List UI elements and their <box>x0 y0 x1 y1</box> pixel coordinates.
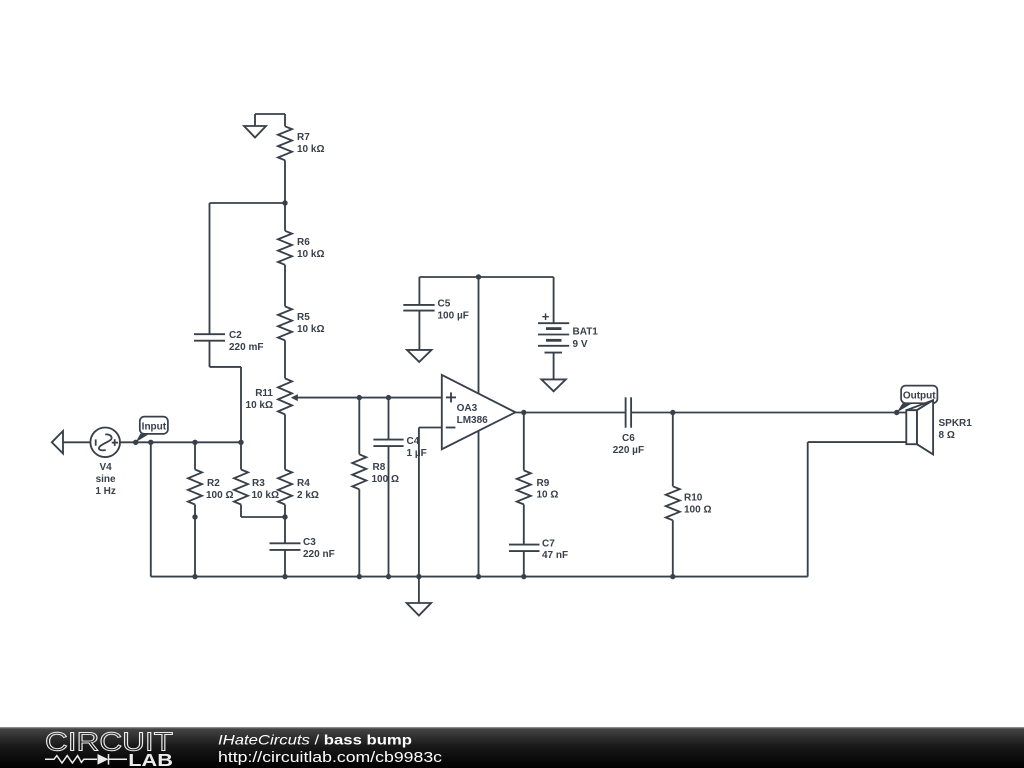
svg-text:LAB: LAB <box>128 750 173 768</box>
svg-text:10 Ω: 10 Ω <box>537 490 559 501</box>
svg-text:10 kΩ: 10 kΩ <box>252 490 279 501</box>
node: R2 bottom terminal <box>192 514 197 519</box>
capacitor C3 <box>270 517 301 577</box>
svg-text:OA3: OA3 <box>457 403 478 414</box>
logo squiggle (resistor + diode) <box>45 754 127 765</box>
node: input flag junction <box>133 440 138 445</box>
svg-text:Output: Output <box>903 390 936 401</box>
label C7 47 nF <box>542 539 568 562</box>
node: R2 top junction <box>192 440 197 445</box>
label R7 10 k&#937; <box>297 132 324 155</box>
svg-text:220 mF: 220 mF <box>229 342 263 353</box>
ground (below BAT1) <box>541 379 565 391</box>
svg-text:BAT1: BAT1 <box>573 327 599 338</box>
wire op-amp V- to rail <box>478 431 480 577</box>
voltage source V4 <box>90 428 241 458</box>
wire R11 wiper to op-amp + <box>296 397 442 399</box>
label C6 220 &#181;F <box>613 433 644 456</box>
svg-text:R10: R10 <box>684 493 703 504</box>
svg-text:C4: C4 <box>407 436 420 447</box>
svg-text:C5: C5 <box>438 298 451 309</box>
wire V+ to op-amp <box>478 277 480 393</box>
svg-text:LM386: LM386 <box>457 415 489 426</box>
ground (left, at V4) <box>52 431 91 454</box>
label BAT1 9 V <box>573 327 599 351</box>
capacitor C4 <box>373 398 403 577</box>
node: R3/C2 junction <box>238 440 243 445</box>
potentiometer R11 <box>278 378 298 469</box>
ground (center, at rail) <box>407 577 431 616</box>
svg-text:R5: R5 <box>297 312 310 323</box>
resistor R8 <box>352 398 366 577</box>
svg-text:C6: C6 <box>622 433 635 444</box>
resistor R7 <box>278 114 292 203</box>
wire ground rail <box>151 442 907 576</box>
svg-text:R2: R2 <box>207 478 220 489</box>
wire op-amp - input <box>419 428 442 577</box>
resistor R5 <box>278 306 292 378</box>
resistor R9 <box>517 413 531 545</box>
node Input (flag) <box>136 417 168 443</box>
svg-text:C3: C3 <box>303 537 316 548</box>
node: C4 top junction <box>386 395 391 400</box>
node: input rail junction <box>148 440 153 445</box>
footer bar <box>0 727 1024 768</box>
label V4 sine 1 Hz <box>95 462 116 497</box>
capacitor C2 <box>194 203 225 367</box>
svg-text:10 kΩ: 10 kΩ <box>246 400 273 411</box>
label C4 1 &#181;F <box>407 436 427 459</box>
svg-text:R7: R7 <box>297 132 310 143</box>
capacitor C5 <box>403 277 434 350</box>
svg-text:100 Ω: 100 Ω <box>372 474 399 485</box>
svg-text:2 kΩ: 2 kΩ <box>297 490 319 501</box>
svg-text:10 kΩ: 10 kΩ <box>297 249 324 260</box>
svg-text:SPKR1: SPKR1 <box>939 418 973 429</box>
svg-text:R3: R3 <box>252 478 265 489</box>
label R10 100 &#937; <box>684 493 711 516</box>
svg-text:100 Ω: 100 Ω <box>684 505 711 516</box>
label R3 10 k&#937; <box>252 478 279 501</box>
svg-text:100 Ω: 100 Ω <box>206 490 233 501</box>
label C5 100 &#181;F <box>438 298 469 321</box>
speaker SPKR1 <box>906 400 933 454</box>
label SPKR1 8 &#937; <box>939 418 973 441</box>
node: R8 top junction <box>357 395 362 400</box>
label R9 10 &#937; <box>537 478 559 501</box>
svg-text:R8: R8 <box>373 462 386 473</box>
node: R7/R6/C2 junction <box>282 200 287 205</box>
svg-text:http://circuitlab.com/cb9983c: http://circuitlab.com/cb9983c <box>218 750 442 766</box>
wire supply top <box>419 276 553 278</box>
label R6 10 k&#937; <box>297 237 324 260</box>
svg-text:R11: R11 <box>255 388 273 399</box>
label R8 100 &#937; <box>372 462 399 485</box>
resistor R2 <box>188 442 202 576</box>
svg-text:R6: R6 <box>297 237 310 248</box>
battery BAT1 <box>538 277 569 379</box>
label R11 10 k&#937; <box>246 388 274 411</box>
resistor R3 <box>234 442 285 517</box>
label C3 220 nF <box>303 537 335 560</box>
node: R10 junction <box>670 410 675 415</box>
svg-text:C2: C2 <box>229 330 242 341</box>
capacitor C7 <box>509 545 540 577</box>
wire junction to C2 <box>210 202 286 204</box>
svg-text:220 nF: 220 nF <box>303 549 335 560</box>
node: V+ supply junction <box>476 274 481 279</box>
svg-text:sine: sine <box>96 474 116 485</box>
svg-text:1 Hz: 1 Hz <box>95 486 116 497</box>
node: R3/R4/C3 junction <box>282 514 287 519</box>
wire C2 to input node <box>210 367 242 442</box>
resistor R4 <box>278 470 292 518</box>
ground (below C5) <box>407 350 432 362</box>
svg-text:47 nF: 47 nF <box>542 550 568 561</box>
svg-text:V4: V4 <box>99 462 112 473</box>
svg-text:1 µF: 1 µF <box>407 448 427 459</box>
svg-text:8 Ω: 8 Ω <box>939 430 955 441</box>
label R5 10 k&#937; <box>297 312 324 335</box>
svg-text:IHateCircuts / bass bump: IHateCircuts / bass bump <box>218 732 412 748</box>
wire op-amp output <box>515 412 906 414</box>
svg-text:R9: R9 <box>537 478 550 489</box>
label R4 2 k&#937; <box>297 478 319 501</box>
svg-text:10 kΩ: 10 kΩ <box>297 144 324 155</box>
svg-text:+: + <box>542 309 550 324</box>
resistor R6 <box>278 203 292 306</box>
svg-text:R4: R4 <box>297 478 310 489</box>
resistor R10 <box>666 413 680 577</box>
svg-text:Input: Input <box>142 421 167 432</box>
capacitor C6 <box>626 397 632 427</box>
label R2 100 &#937; <box>206 478 233 501</box>
op-amp U1 OA3 LM386 <box>442 375 516 449</box>
node: rail junctions <box>192 574 675 579</box>
ground (top, at R7) <box>244 114 285 138</box>
node: output/R9 junction <box>521 410 526 415</box>
svg-text:C7: C7 <box>542 539 555 550</box>
label OA3 LM386 <box>457 403 489 426</box>
svg-text:9 V: 9 V <box>573 339 588 350</box>
wire input to rail <box>150 442 152 576</box>
node: speaker input junction <box>894 410 899 415</box>
svg-text:220 µF: 220 µF <box>613 445 644 456</box>
svg-text:10 kΩ: 10 kΩ <box>297 324 324 335</box>
label C2 220 mF <box>229 330 263 353</box>
svg-text:100 µF: 100 µF <box>438 310 469 321</box>
node Output (flag) <box>897 386 938 413</box>
